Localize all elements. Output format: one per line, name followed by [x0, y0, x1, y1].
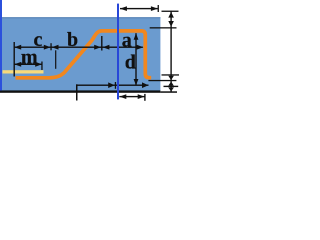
extension at orange bottom / T4	[148, 80, 176, 81]
extension from orange top	[150, 27, 177, 28]
lower dim mid right arrow	[108, 82, 115, 88]
tick b/a	[101, 36, 102, 51]
top dim right tick	[158, 5, 159, 12]
d top arrow	[134, 33, 139, 39]
orange profile	[16, 31, 152, 78]
m right tick	[41, 62, 42, 71]
right dim tick T3	[162, 74, 180, 75]
right dim tick T1	[162, 11, 179, 12]
middle guide line	[117, 4, 119, 100]
top dim right arrow	[151, 6, 158, 11]
bend extension line below c/b	[55, 50, 56, 69]
b left arrow	[52, 45, 59, 50]
a right arrow	[137, 45, 144, 50]
bottom dimension line	[119, 96, 144, 97]
yellow stripe	[3, 70, 44, 73]
right dim up arrow top	[168, 12, 174, 18]
d dimension line	[135, 33, 136, 85]
d bottom arrow	[134, 79, 139, 85]
m left arrow	[14, 62, 21, 67]
bottom dim right tick	[144, 94, 145, 101]
canvas bottom border right	[160, 91, 177, 93]
b right arrow	[94, 45, 101, 50]
right dim down arrow above T4	[168, 76, 174, 80]
main dimension line c/b/a	[14, 47, 143, 48]
canvas top edge	[0, 17, 160, 18]
left guide line	[0, 0, 2, 90]
top dim left arrow	[120, 6, 127, 11]
c left arrow	[14, 45, 21, 50]
right vertical dimension line	[170, 11, 171, 93]
right dim up arrow below T4	[168, 82, 174, 86]
svg-text:a: a	[122, 29, 132, 51]
c right arrow	[44, 45, 51, 50]
svg-text:d: d	[125, 51, 136, 73]
lower dim corner vertical	[76, 84, 78, 100]
top dimension line	[120, 8, 158, 9]
a left arrow	[103, 45, 110, 50]
tick c/b	[50, 43, 51, 50]
left extension line	[14, 42, 15, 77]
lower horizontal dimension line	[76, 85, 149, 86]
bottom dim right arrow	[138, 94, 145, 99]
blue drawing canvas	[0, 17, 160, 90]
bottom dim left arrow	[119, 94, 126, 99]
lower dim right arrow	[142, 82, 149, 88]
canvas background	[0, 0, 184, 109]
m right arrow	[35, 62, 42, 67]
m dimension line	[14, 64, 42, 65]
canvas bottom border left	[0, 90, 160, 92]
svg-text:b: b	[67, 29, 78, 51]
right dim down arrow above T2	[168, 21, 174, 27]
right dim bottom down arrow	[168, 87, 174, 91]
right dim tick T5	[164, 86, 179, 87]
